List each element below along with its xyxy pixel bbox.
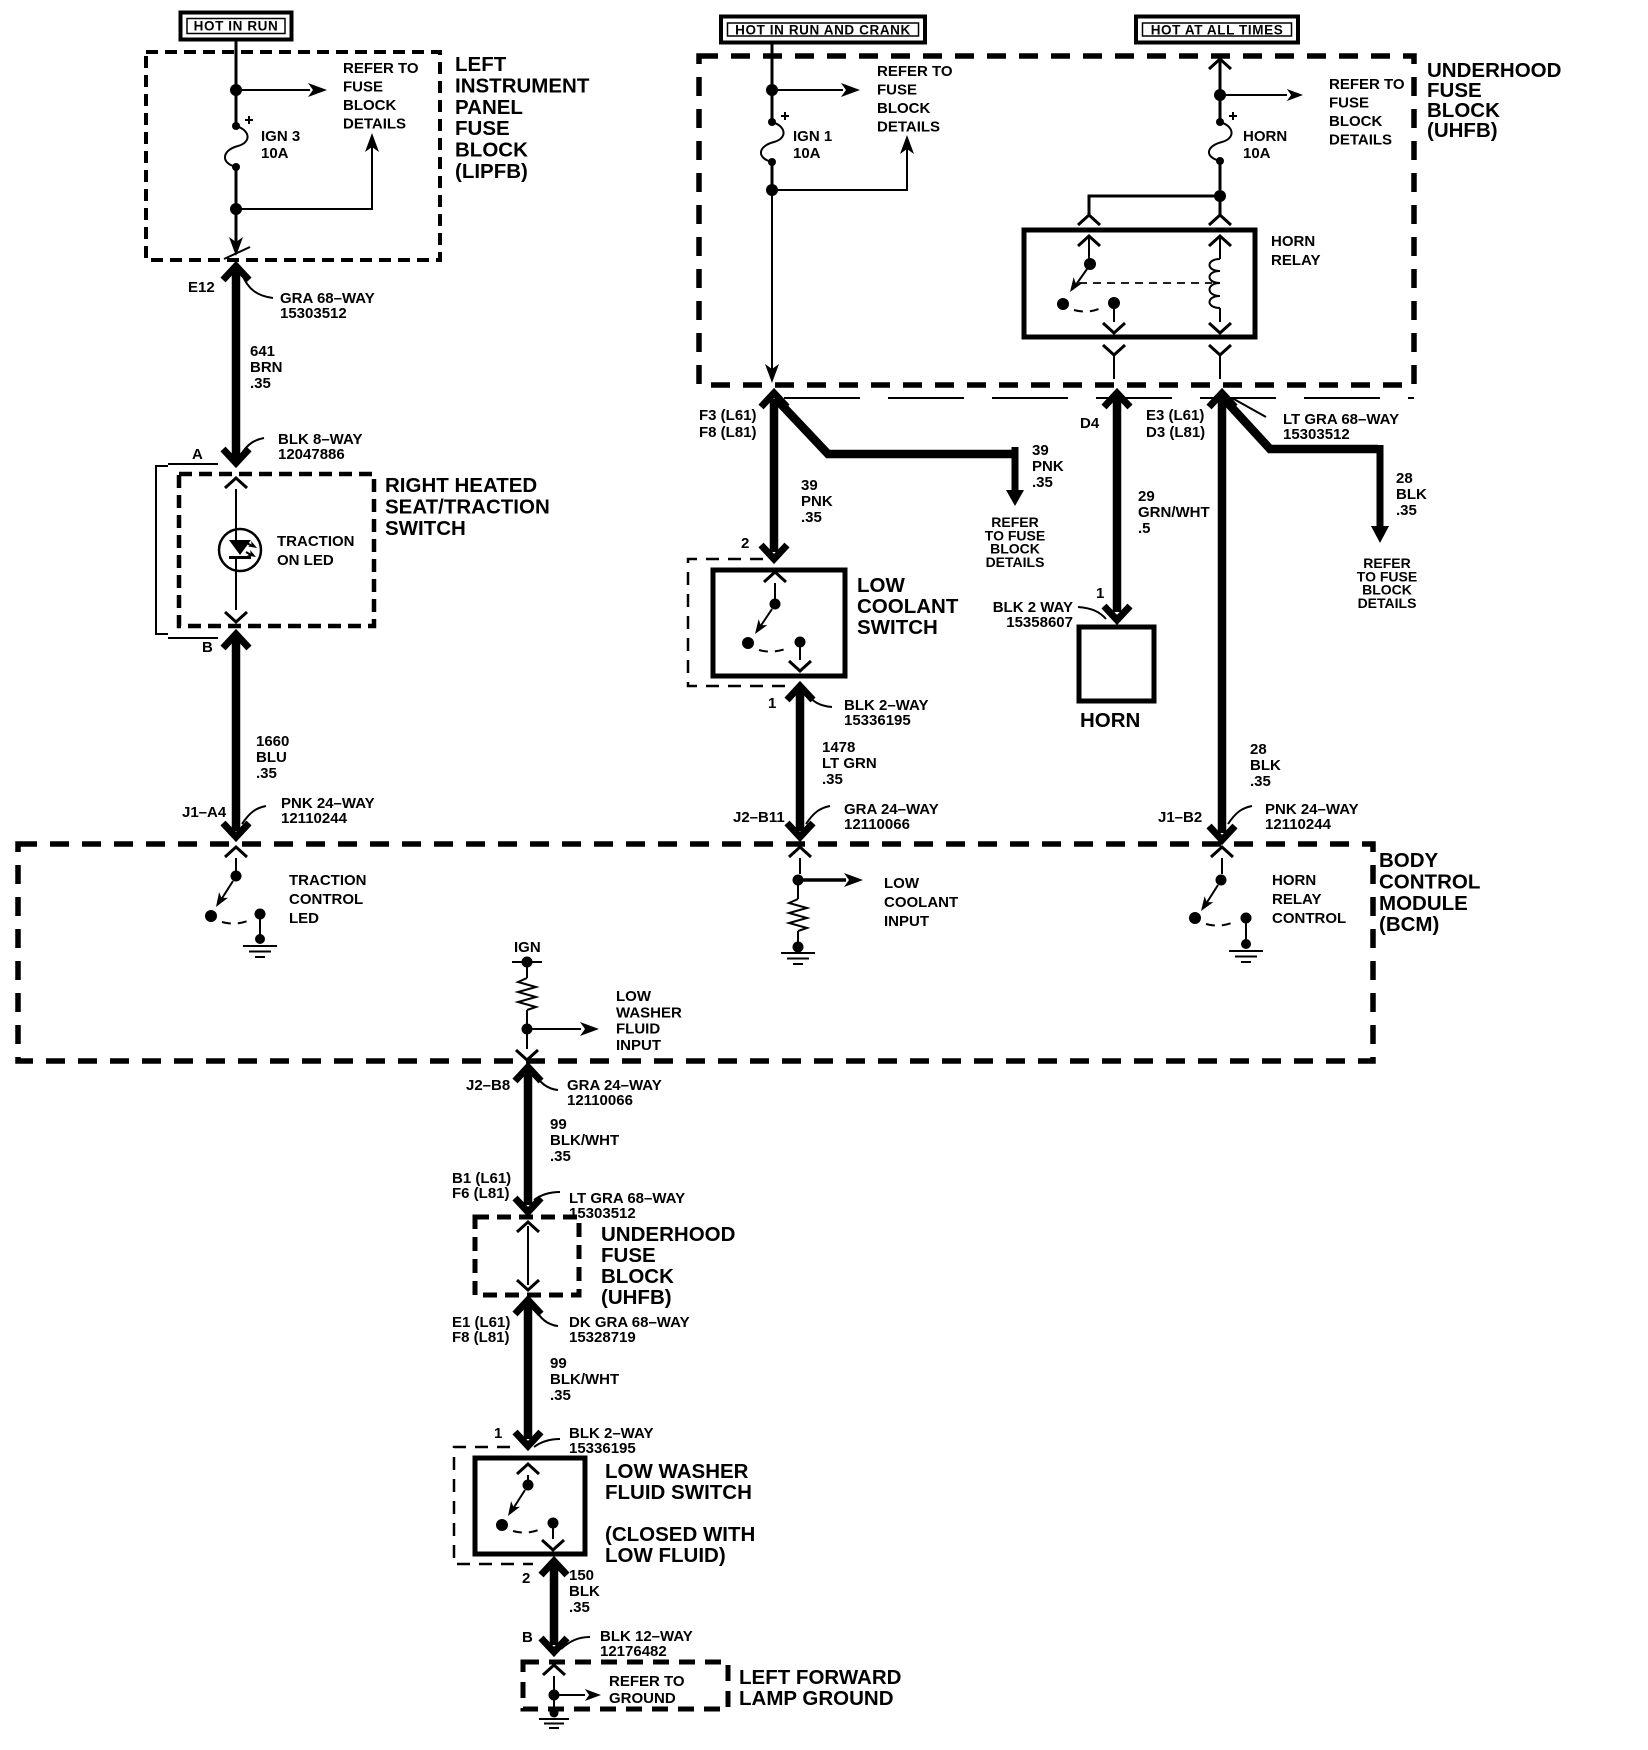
svg-text:15303512: 15303512 bbox=[1283, 426, 1350, 443]
wire 29 GRN/WHT .5 to horn bbox=[1113, 399, 1122, 612]
wire 99 BLK/WHT .35 (upper) bbox=[524, 1072, 533, 1205]
label LOW COOLANT INPUT bbox=[884, 875, 958, 930]
svg-text:10A: 10A bbox=[261, 145, 289, 162]
svg-text:BLU: BLU bbox=[256, 749, 287, 766]
svg-text:PNK: PNK bbox=[801, 493, 833, 510]
svg-text:INSTRUMENT: INSTRUMENT bbox=[455, 74, 590, 97]
connector D4 bbox=[1104, 393, 1130, 407]
wire bbox=[235, 167, 238, 209]
label LOW COOLANT SWITCH bbox=[857, 574, 959, 639]
arrow refer to fuse block details (UHFB left) bbox=[772, 89, 843, 91]
label (CLOSED WITH LOW FLUID) bbox=[605, 1523, 755, 1567]
svg-text:10A: 10A bbox=[1243, 145, 1271, 162]
ground (horn relay control) bbox=[1229, 951, 1263, 962]
svg-text:HORN: HORN bbox=[1080, 709, 1140, 732]
wire into switch bbox=[225, 478, 247, 488]
label HORN RELAY CONTROL bbox=[1272, 872, 1346, 927]
svg-text:12110066: 12110066 bbox=[844, 816, 910, 833]
svg-text:LAMP GROUND: LAMP GROUND bbox=[739, 1687, 894, 1710]
horn box bbox=[1079, 627, 1154, 701]
svg-text:PNK: PNK bbox=[1032, 458, 1064, 475]
svg-text:IGN 1: IGN 1 bbox=[793, 128, 832, 145]
svg-text:UNDERHOOD: UNDERHOOD bbox=[601, 1223, 735, 1246]
connector BLK 2-WAY 15336195 (coolant) bbox=[806, 692, 832, 707]
bracket left of switch bbox=[156, 466, 168, 634]
svg-text:1: 1 bbox=[494, 1425, 502, 1442]
svg-text:150: 150 bbox=[569, 1567, 594, 1584]
svg-text:(UHFB): (UHFB) bbox=[1427, 119, 1498, 142]
svg-text:COOLANT: COOLANT bbox=[857, 595, 959, 618]
node junction below fuse IGN 3 bbox=[230, 203, 242, 215]
arrow low washer fluid input bbox=[527, 1028, 581, 1030]
svg-text:BODY: BODY bbox=[1379, 849, 1439, 872]
wire 1660 BLU .35 bbox=[223, 634, 289, 837]
svg-text:DETAILS: DETAILS bbox=[343, 116, 406, 133]
low coolant switch assembly dashed outline bbox=[688, 559, 788, 686]
svg-text:1478: 1478 bbox=[822, 739, 855, 756]
horn relay box bbox=[1024, 230, 1255, 337]
LED traction on bbox=[219, 529, 355, 571]
svg-text:E12: E12 bbox=[188, 279, 215, 296]
connector B bbox=[168, 638, 218, 656]
connector B1 (L61) F6 (L81) LT GRA 68-WAY 15303512 bbox=[452, 1170, 685, 1222]
connector E1 (L61) F8 (L81) DK GRA 68-WAY 15328719 bbox=[452, 1307, 690, 1346]
svg-text:15358607: 15358607 bbox=[1006, 614, 1073, 631]
svg-text:LOW FLUID): LOW FLUID) bbox=[605, 1544, 726, 1567]
svg-text:BLOCK: BLOCK bbox=[343, 97, 396, 114]
svg-text:.35: .35 bbox=[1396, 502, 1417, 519]
wire with arrow exiting LIPFB bbox=[235, 209, 238, 242]
arrow refer to ground bbox=[554, 1694, 585, 1696]
svg-text:DETAILS: DETAILS bbox=[1329, 132, 1392, 149]
node junction washer input bbox=[522, 1024, 533, 1035]
svg-text:RELAY: RELAY bbox=[1272, 891, 1321, 908]
svg-text:12047886: 12047886 bbox=[278, 446, 345, 463]
connector A BLK 8-WAY 12047886 bbox=[168, 431, 362, 464]
svg-text:FUSE: FUSE bbox=[1329, 95, 1369, 112]
svg-text:F6 (L81): F6 (L81) bbox=[452, 1185, 510, 1202]
svg-text:BLOCK: BLOCK bbox=[455, 139, 528, 162]
wire bbox=[771, 162, 774, 190]
wire 99 BLK/WHT .35 (lower) bbox=[515, 1300, 541, 1314]
low washer fluid switch contacts bbox=[496, 1464, 564, 1550]
svg-text:.35: .35 bbox=[250, 375, 271, 392]
svg-text:INPUT: INPUT bbox=[884, 913, 929, 930]
svg-text:REFER TO: REFER TO bbox=[1329, 76, 1405, 93]
svg-text:LT GRN: LT GRN bbox=[822, 755, 877, 772]
fuse block LIPFB dashed box bbox=[146, 52, 440, 260]
arrow refer to fuse block details (UHFB right) bbox=[1220, 94, 1287, 96]
wire into ground box bbox=[543, 1665, 565, 1675]
svg-text:39: 39 bbox=[801, 477, 818, 494]
svg-text:TRACTION: TRACTION bbox=[289, 872, 367, 889]
svg-text:J2–B11: J2–B11 bbox=[733, 809, 785, 826]
svg-text:PANEL: PANEL bbox=[455, 96, 523, 119]
svg-text:B: B bbox=[522, 1629, 533, 1646]
svg-text:D3 (L81): D3 (L81) bbox=[1146, 424, 1205, 441]
connector pin 1 BLK 2-WAY 15336195 bbox=[494, 1425, 653, 1457]
svg-text:12110066: 12110066 bbox=[567, 1092, 633, 1109]
svg-text:12176482: 12176482 bbox=[600, 1643, 667, 1660]
svg-text:RIGHT HEATED: RIGHT HEATED bbox=[385, 474, 537, 497]
svg-text:DETAILS: DETAILS bbox=[1358, 595, 1417, 611]
svg-text:LOW WASHER: LOW WASHER bbox=[605, 1460, 749, 1483]
low coolant switch box bbox=[713, 570, 845, 676]
label UNDERHOOD FUSE BLOCK (UHFB) bbox=[1427, 59, 1561, 142]
svg-text:REFER TO: REFER TO bbox=[609, 1673, 685, 1690]
svg-text:IGN 3: IGN 3 bbox=[261, 128, 300, 145]
svg-text:MODULE: MODULE bbox=[1379, 892, 1468, 915]
label UNDERHOOD FUSE BLOCK (UHFB) bbox=[601, 1223, 735, 1309]
svg-text:ON LED: ON LED bbox=[277, 552, 334, 569]
svg-text:F3 (L61): F3 (L61) bbox=[699, 407, 757, 424]
wire 39 PNK .35 down to low coolant switch bbox=[770, 399, 779, 552]
svg-text:28: 28 bbox=[1250, 741, 1267, 758]
svg-text:LEFT FORWARD: LEFT FORWARD bbox=[739, 1666, 901, 1689]
wire 150 BLK .35 bbox=[541, 1561, 567, 1575]
svg-text:FUSE: FUSE bbox=[877, 82, 917, 99]
wire branch left to relay switch leg bbox=[1089, 196, 1218, 215]
svg-text:SWITCH: SWITCH bbox=[857, 616, 938, 639]
wire through fuse block bbox=[517, 1222, 539, 1232]
svg-text:.35: .35 bbox=[1250, 773, 1271, 790]
svg-text:641: 641 bbox=[250, 343, 275, 360]
svg-text:15336195: 15336195 bbox=[844, 712, 911, 729]
svg-text:CONTROL: CONTROL bbox=[1272, 910, 1346, 927]
svg-text:15303512: 15303512 bbox=[569, 1205, 636, 1222]
svg-text:IGN: IGN bbox=[514, 939, 541, 956]
wire bbox=[235, 90, 238, 124]
svg-text:12110244: 12110244 bbox=[281, 810, 348, 827]
label TRACTION CONTROL LED bbox=[289, 872, 367, 927]
svg-text:99: 99 bbox=[550, 1116, 567, 1133]
svg-text:LEFT: LEFT bbox=[455, 53, 507, 76]
right heated seat/traction switch dashed box bbox=[179, 474, 374, 626]
underhood fuse block UHFB dashed box bbox=[699, 56, 1414, 385]
label LOW WASHER FLUID SWITCH bbox=[605, 1460, 752, 1504]
svg-text:LED: LED bbox=[289, 910, 319, 927]
header box HOT IN RUN bbox=[181, 13, 292, 40]
wire from HOT IN RUN AND CRANK bbox=[771, 44, 774, 86]
ground (traction control LED) bbox=[243, 946, 277, 957]
svg-text:15336195: 15336195 bbox=[569, 1440, 636, 1457]
svg-text:(LIPFB): (LIPFB) bbox=[455, 160, 528, 183]
svg-text:J1–A4: J1–A4 bbox=[182, 804, 227, 821]
fuse IGN 3 10A bbox=[225, 116, 300, 171]
svg-text:(CLOSED WITH: (CLOSED WITH bbox=[605, 1523, 755, 1546]
label REFER TO FUSE BLOCK DETAILS (LIPFB) bbox=[343, 60, 419, 133]
svg-text:HORN: HORN bbox=[1243, 128, 1287, 145]
svg-text:F8 (L81): F8 (L81) bbox=[699, 424, 757, 441]
svg-text:GRN/WHT: GRN/WHT bbox=[1138, 504, 1210, 521]
wire 39 PNK .35 branch to fuse details bbox=[777, 400, 1064, 570]
svg-text:.35: .35 bbox=[256, 765, 277, 782]
svg-text:.35: .35 bbox=[801, 509, 822, 526]
wire to ground bbox=[553, 1700, 555, 1710]
svg-text:BLOCK: BLOCK bbox=[877, 100, 930, 117]
low coolant input sensing bbox=[789, 847, 863, 953]
svg-text:RELAY: RELAY bbox=[1271, 252, 1320, 269]
arrow up to details text (UHFB left) bbox=[772, 146, 907, 190]
wire 28 BLK .35 down to BCM bbox=[1218, 399, 1227, 833]
svg-text:CONTROL: CONTROL bbox=[289, 891, 363, 908]
svg-text:HOT AT ALL TIMES: HOT AT ALL TIMES bbox=[1151, 23, 1284, 38]
wire bbox=[1219, 161, 1222, 190]
label BODY CONTROL MODULE (BCM) bbox=[1379, 849, 1480, 936]
wire from HOT AT ALL TIMES bbox=[1209, 59, 1231, 69]
svg-text:.35: .35 bbox=[1032, 474, 1053, 491]
svg-text:15328719: 15328719 bbox=[569, 1329, 636, 1346]
arrow up to details text bbox=[236, 144, 372, 209]
node junction below fuse IGN 1 bbox=[766, 184, 778, 196]
svg-text:E3 (L61): E3 (L61) bbox=[1146, 407, 1204, 424]
header box HOT AT ALL TIMES bbox=[1136, 17, 1298, 43]
svg-text:LOW: LOW bbox=[857, 574, 905, 597]
svg-text:1: 1 bbox=[768, 695, 776, 712]
node junction above fuse IGN 3 bbox=[230, 84, 242, 96]
svg-text:J2–B8: J2–B8 bbox=[466, 1077, 510, 1094]
svg-text:WASHER: WASHER bbox=[616, 1004, 682, 1021]
svg-text:FUSE: FUSE bbox=[343, 79, 383, 96]
svg-text:2: 2 bbox=[741, 535, 749, 552]
svg-text:1660: 1660 bbox=[256, 733, 289, 750]
svg-text:BLK: BLK bbox=[1250, 757, 1281, 774]
fuse IGN 1 10A bbox=[761, 90, 832, 166]
svg-text:10A: 10A bbox=[793, 145, 821, 162]
svg-text:B: B bbox=[202, 639, 213, 656]
low washer fluid switch box bbox=[475, 1458, 585, 1554]
svg-text:1: 1 bbox=[1096, 585, 1104, 602]
underhood fuse block UHFB small dashed box bbox=[475, 1217, 579, 1295]
svg-text:CONTROL: CONTROL bbox=[1379, 870, 1480, 893]
svg-text:D4: D4 bbox=[1080, 415, 1100, 432]
connector F3 (L61) F8 (L81) bbox=[699, 393, 787, 441]
node junction ground bbox=[549, 1690, 560, 1701]
label RIGHT HEATED SEAT/TRACTION SWITCH bbox=[385, 474, 550, 540]
svg-text:15303512: 15303512 bbox=[280, 305, 347, 322]
svg-text:.35: .35 bbox=[550, 1148, 571, 1165]
svg-text:REFER TO: REFER TO bbox=[877, 63, 953, 80]
connector BLK 2 WAY 15358607 bbox=[993, 599, 1073, 631]
svg-text:FUSE: FUSE bbox=[601, 1244, 656, 1267]
svg-text:HOT IN RUN: HOT IN RUN bbox=[194, 19, 279, 34]
fuse HORN 10A bbox=[1209, 95, 1287, 165]
connector J1-B2 PNK 24-WAY 12110244 bbox=[1158, 801, 1359, 833]
svg-text:A: A bbox=[192, 446, 203, 463]
svg-text:HORN: HORN bbox=[1272, 872, 1316, 889]
svg-text:COOLANT: COOLANT bbox=[884, 894, 958, 911]
svg-text:HORN: HORN bbox=[1271, 233, 1315, 250]
svg-text:LOW: LOW bbox=[884, 875, 920, 892]
connector J2-B11 GRA 24-WAY 12110066 bbox=[733, 801, 939, 833]
svg-text:99: 99 bbox=[550, 1355, 567, 1372]
svg-text:TRACTION: TRACTION bbox=[277, 533, 355, 550]
connector B BLK 12-WAY 12176482 bbox=[522, 1628, 693, 1660]
node junction below fuse HORN bbox=[1214, 190, 1226, 202]
ground (low coolant input) bbox=[781, 953, 815, 964]
svg-text:GROUND: GROUND bbox=[609, 1690, 676, 1707]
wire 28 BLK .35 branch to fuse details bbox=[1225, 400, 1427, 611]
svg-text:(BCM): (BCM) bbox=[1379, 913, 1439, 936]
svg-text:12110244: 12110244 bbox=[1265, 816, 1332, 833]
svg-text:FUSE: FUSE bbox=[455, 117, 510, 140]
connector J2-B8 GRA 24-WAY 12110066 bbox=[466, 1067, 662, 1109]
svg-text:SWITCH: SWITCH bbox=[385, 517, 466, 540]
wire down to relay coil leg bbox=[1219, 196, 1222, 215]
svg-text:BLK: BLK bbox=[569, 1583, 600, 1600]
wire out of switch bbox=[235, 571, 237, 610]
svg-text:F8 (L81): F8 (L81) bbox=[452, 1329, 510, 1346]
svg-text:REFER TO: REFER TO bbox=[343, 60, 419, 77]
svg-text:DETAILS: DETAILS bbox=[877, 119, 940, 136]
ground (left forward lamp) bbox=[539, 1719, 569, 1728]
svg-text:BLOCK: BLOCK bbox=[1329, 113, 1382, 130]
connector row dashed line under UHFB bbox=[784, 397, 1414, 399]
wire from HOT IN RUN into fuse block bbox=[235, 41, 238, 86]
connector E3 (L61) D3 (L81) bbox=[1146, 393, 1399, 443]
svg-text:.5: .5 bbox=[1138, 520, 1151, 537]
low coolant switch contacts bbox=[742, 572, 811, 671]
svg-text:BLOCK: BLOCK bbox=[601, 1265, 674, 1288]
svg-text:FLUID: FLUID bbox=[616, 1021, 660, 1038]
svg-text:39: 39 bbox=[1032, 442, 1049, 459]
svg-text:SEAT/TRACTION: SEAT/TRACTION bbox=[385, 495, 550, 518]
svg-text:28: 28 bbox=[1396, 470, 1413, 487]
switch traction control LED driver bbox=[205, 847, 266, 944]
svg-text:J1–B2: J1–B2 bbox=[1158, 809, 1202, 826]
wire 1478 LT GRN .35 bbox=[787, 686, 877, 837]
svg-text:LOW: LOW bbox=[616, 988, 652, 1005]
svg-text:2: 2 bbox=[522, 1570, 530, 1587]
connector E12 GRA 68-WAY 15303512 bbox=[188, 266, 375, 463]
wire exiting BCM bbox=[526, 1029, 528, 1049]
svg-text:BLK: BLK bbox=[1396, 486, 1427, 503]
switch horn relay control bbox=[1189, 847, 1252, 949]
svg-text:BLK/WHT: BLK/WHT bbox=[550, 1371, 619, 1388]
connector J1-A4 PNK 24-WAY 12110244 bbox=[182, 795, 375, 827]
relay switch contacts bbox=[1057, 258, 1125, 333]
wire label 641 BRN .35 bbox=[250, 343, 283, 392]
node junction above fuse IGN 1 bbox=[766, 84, 778, 96]
svg-text:29: 29 bbox=[1138, 488, 1155, 505]
low washer fluid switch bracket bbox=[454, 1447, 533, 1564]
relay outputs exiting box bbox=[1103, 345, 1125, 355]
label LEFT INSTRUMENT PANEL FUSE BLOCK (LIPFB) bbox=[455, 53, 590, 183]
relay coil bbox=[1210, 259, 1221, 308]
label LEFT FORWARD LAMP GROUND bbox=[739, 1666, 901, 1710]
svg-text:BRN: BRN bbox=[250, 359, 283, 376]
svg-text:.35: .35 bbox=[822, 771, 843, 788]
body control module BCM dashed box bbox=[18, 844, 1373, 1061]
arrow refer to fuse block details bbox=[236, 89, 310, 91]
resistor IGN pull-up bbox=[518, 967, 536, 1024]
node junction above fuse HORN bbox=[1214, 89, 1226, 101]
svg-text:BLK/WHT: BLK/WHT bbox=[550, 1132, 619, 1149]
left forward lamp ground dashed box bbox=[523, 1662, 728, 1709]
svg-text:HOT IN RUN AND CRANK: HOT IN RUN AND CRANK bbox=[735, 23, 911, 38]
header box HOT IN RUN AND CRANK bbox=[721, 17, 925, 43]
svg-text:DETAILS: DETAILS bbox=[986, 554, 1045, 570]
svg-text:INPUT: INPUT bbox=[616, 1037, 661, 1054]
svg-text:FLUID SWITCH: FLUID SWITCH bbox=[605, 1481, 752, 1504]
svg-text:.35: .35 bbox=[550, 1387, 571, 1404]
svg-text:(UHFB): (UHFB) bbox=[601, 1286, 672, 1309]
svg-text:.35: .35 bbox=[569, 1599, 590, 1616]
wire down to F3 with arrow bbox=[771, 190, 773, 370]
relay actuation dashed line bbox=[1079, 282, 1212, 284]
